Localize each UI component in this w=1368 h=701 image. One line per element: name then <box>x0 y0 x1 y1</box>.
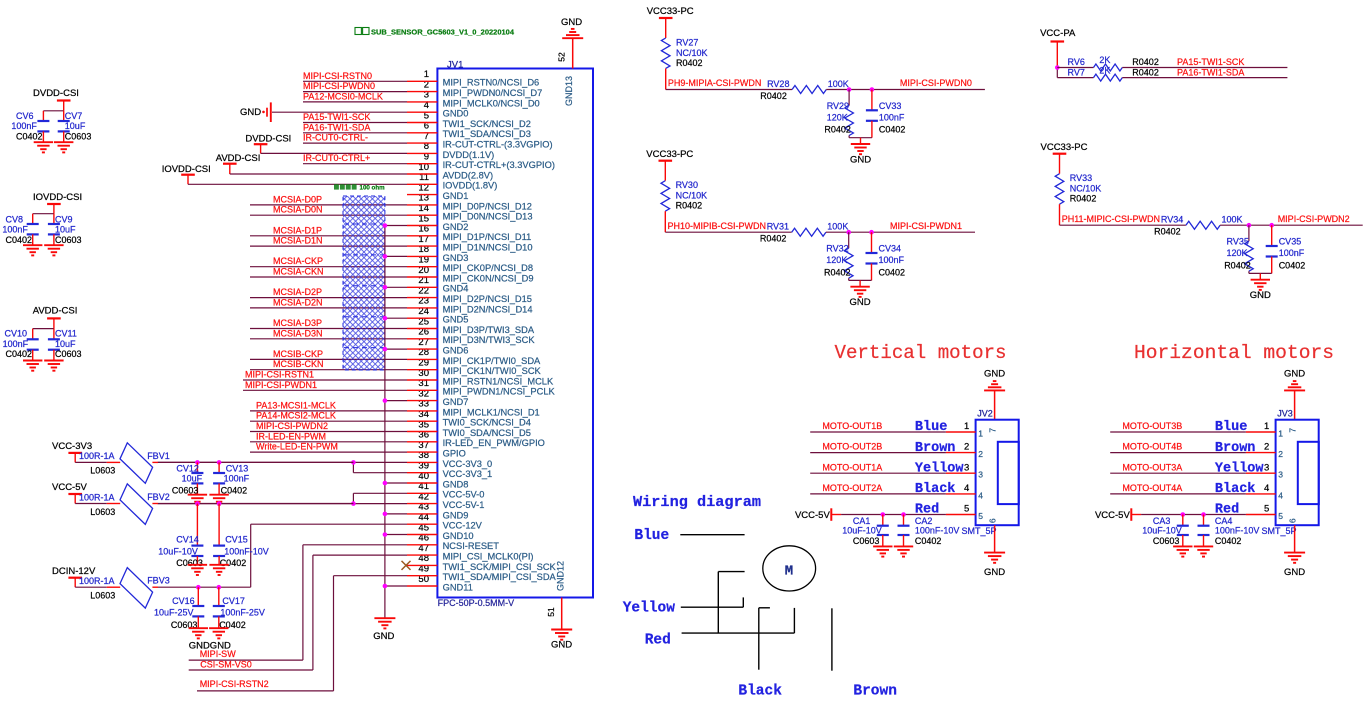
wire pin 23 <box>250 307 407 309</box>
wire Black lead <box>759 608 770 670</box>
svg-text:10uF-25V: 10uF-25V <box>154 608 194 618</box>
svg-text:MIPI_MCLK0/NCSI_D0: MIPI_MCLK0/NCSI_D0 <box>443 98 540 108</box>
svg-text:4: 4 <box>1278 490 1283 500</box>
svg-text:R0402: R0402 <box>676 58 703 68</box>
svg-text:MIPI-CSI-RSTN2: MIPI-CSI-RSTN2 <box>200 679 269 689</box>
GND bus junctions <box>383 223 388 588</box>
svg-text:CV7: CV7 <box>65 111 83 121</box>
junction CV12 <box>195 460 200 465</box>
svg-text:TWI0_SCK/NCSI_D4: TWI0_SCK/NCSI_D4 <box>443 418 531 428</box>
svg-text:MOTO-OUT4A: MOTO-OUT4A <box>1122 483 1182 493</box>
svg-text:MCSIB-CKP: MCSIB-CKP <box>273 349 323 359</box>
svg-text:L0603: L0603 <box>90 466 115 476</box>
net label MIPI-CSI-PWDN1 (pin 31) <box>245 380 317 390</box>
net label MCSIB-CKP (pin 28) <box>273 349 323 359</box>
svg-text:R0402: R0402 <box>1132 57 1159 67</box>
svg-text:MIPI-CSI-PWDN1: MIPI-CSI-PWDN1 <box>245 380 317 390</box>
ground tap pin 4 (GND bar symbol) <box>240 102 407 122</box>
connector JV1 footprint label <box>438 598 515 608</box>
svg-text:TWI0_SDA/NCSI_D5: TWI0_SDA/NCSI_D5 <box>443 428 531 438</box>
svg-text:PA16-TWI1-SDA: PA16-TWI1-SDA <box>303 122 370 132</box>
svg-text:C0402: C0402 <box>915 536 942 546</box>
wire pin 33 <box>250 410 407 412</box>
net label MCSIA-D2N (pin 23) <box>273 297 323 307</box>
svg-text:VCC33-PC: VCC33-PC <box>647 6 694 17</box>
wire CSI-SM-VS0 riser to pin 47 <box>189 555 407 670</box>
svg-text:10uF-10V: 10uF-10V <box>1142 525 1182 535</box>
wiring diagram label Blue <box>634 528 669 544</box>
wiring diagram label Yellow <box>623 601 676 617</box>
wire pin 19 <box>250 266 407 268</box>
svg-text:MCSIA-D1N: MCSIA-D1N <box>273 236 323 246</box>
svg-text:1: 1 <box>964 421 969 432</box>
svg-text:100nF: 100nF <box>11 121 37 131</box>
svg-text:C0402: C0402 <box>6 349 33 359</box>
wire VCC-3V3 rail to pins 38/39 <box>158 462 408 472</box>
junction CV16 <box>196 585 201 590</box>
capacitor CV13 <box>213 462 250 495</box>
junction CV14 <box>195 501 200 506</box>
svg-text:MIPI-CSI-PWDN2: MIPI-CSI-PWDN2 <box>256 421 328 431</box>
svg-text:RV34: RV34 <box>1161 215 1183 225</box>
resistor network RV30/RV31/RV32, capacitor CV34 (PH10-MIPIB-CSI-PWDN) <box>646 149 975 308</box>
svg-text:NCSI-RESET: NCSI-RESET <box>443 541 500 551</box>
svg-text:100nF-10V: 100nF-10V <box>1215 525 1260 535</box>
svg-text:IR-CUT-CTRL+(3.3VGPIO): IR-CUT-CTRL+(3.3VGPIO) <box>443 160 555 170</box>
svg-text:Blue: Blue <box>634 528 669 544</box>
svg-text:C0402: C0402 <box>6 235 33 245</box>
svg-text:C0402: C0402 <box>1215 536 1242 546</box>
wire pin 34 <box>250 420 407 422</box>
svg-text:PA12-MCSI0-MCLK: PA12-MCSI0-MCLK <box>303 91 383 101</box>
svg-text:MIPI_D1N/NCSI_D10: MIPI_D1N/NCSI_D10 <box>443 243 533 253</box>
svg-text:RV31: RV31 <box>767 222 789 232</box>
net label CSI-SM-VS0 <box>200 660 252 670</box>
junction VCC-5V <box>351 501 356 506</box>
svg-text:6: 6 <box>1287 518 1297 523</box>
svg-text:PH11-MIPIC-CSI-PWDN: PH11-MIPIC-CSI-PWDN <box>1062 214 1160 224</box>
svg-text:CV6: CV6 <box>16 111 34 121</box>
svg-text:Vertical motors: Vertical motors <box>835 342 1007 364</box>
capacitor CV16 <box>154 587 204 630</box>
svg-text:IOVDD(1.8V): IOVDD(1.8V) <box>443 181 498 191</box>
junction VCC-3V3 <box>351 460 356 465</box>
wire pin 28 <box>250 358 407 360</box>
svg-text:Black: Black <box>1215 482 1256 497</box>
svg-text:R0402: R0402 <box>1070 194 1097 204</box>
hatched highlight region (differential pairs) <box>343 196 385 370</box>
svg-text:AVDD-CSI: AVDD-CSI <box>216 153 261 164</box>
svg-text:10uF-10V: 10uF-10V <box>842 525 882 535</box>
svg-text:10uF: 10uF <box>55 339 76 349</box>
svg-text:AVDD-CSI: AVDD-CSI <box>33 306 78 317</box>
svg-text:Blue: Blue <box>1215 420 1247 435</box>
wire pin 25 <box>250 328 407 330</box>
svg-text:CV15: CV15 <box>225 535 248 545</box>
svg-text:IOVDD-CSI: IOVDD-CSI <box>33 192 82 203</box>
svg-text:IR-CUT0-CTRL-: IR-CUT0-CTRL- <box>303 133 368 143</box>
svg-text:1: 1 <box>1278 429 1283 439</box>
svg-text:TWI1_SDA/MIPI_CSI_SDA: TWI1_SDA/MIPI_CSI_SDA <box>443 572 557 582</box>
svg-text:GND: GND <box>373 631 394 642</box>
svg-text:100nF: 100nF <box>224 474 250 484</box>
svg-text:MOTO-OUT3B: MOTO-OUT3B <box>1122 421 1182 431</box>
svg-text:MOTO-OUT2A: MOTO-OUT2A <box>822 483 882 493</box>
wire Red lead <box>682 608 795 633</box>
svg-text:100nF-10V: 100nF-10V <box>224 547 269 557</box>
svg-text:5: 5 <box>978 511 983 521</box>
svg-text:IOVDD-CSI: IOVDD-CSI <box>162 164 211 175</box>
svg-text:GND6: GND6 <box>443 346 469 356</box>
net label PA15-TWI1-SCK (pin 5) <box>303 112 370 122</box>
svg-text:GND11: GND11 <box>443 582 473 592</box>
svg-text:NC/10K: NC/10K <box>1070 184 1102 194</box>
svg-text:GND2: GND2 <box>443 222 469 232</box>
svg-text:IR-CUT0-CTRL+: IR-CUT0-CTRL+ <box>303 153 370 163</box>
svg-text:GND5: GND5 <box>443 315 469 325</box>
svg-text:MIPI-CSI-RSTN1: MIPI-CSI-RSTN1 <box>245 370 314 380</box>
svg-text:VCC-5V: VCC-5V <box>795 510 831 521</box>
svg-text:2K: 2K <box>1099 65 1110 75</box>
svg-text:MIPI_D1P/NCSI_D11: MIPI_D1P/NCSI_D11 <box>443 232 532 242</box>
wire pin 5 <box>303 122 407 124</box>
svg-text:CV16: CV16 <box>172 596 195 606</box>
power tap IOVDD-CSI (pin 11) <box>162 164 407 184</box>
net label IR-CUT0-CTRL+ (pin 9) <box>303 153 370 163</box>
svg-text:IR-LED_EN_PWM/GPIO: IR-LED_EN_PWM/GPIO <box>443 438 545 448</box>
svg-text:2: 2 <box>964 442 969 453</box>
ground (CV15) <box>209 565 228 575</box>
wiring diagram label Brown <box>853 684 897 700</box>
svg-text:Black: Black <box>915 482 956 497</box>
connector JV1 refdes <box>447 59 463 70</box>
svg-text:2: 2 <box>1278 449 1283 459</box>
svg-text:100nF: 100nF <box>879 255 905 265</box>
svg-text:10uF: 10uF <box>182 474 203 484</box>
svg-text:C0603: C0603 <box>853 536 880 546</box>
svg-text:GND: GND <box>240 107 261 118</box>
svg-text:10uF-10V: 10uF-10V <box>158 547 198 557</box>
power DCIN-12V / ferrite bead FBV3 <box>52 566 251 608</box>
svg-text:120K: 120K <box>826 255 847 265</box>
svg-text:VCC-5V-1: VCC-5V-1 <box>443 500 485 510</box>
svg-text:Brown: Brown <box>853 684 897 700</box>
svg-text:VCC-PA: VCC-PA <box>1040 28 1076 39</box>
svg-text:SMT_5P: SMT_5P <box>1262 526 1297 536</box>
svg-text:MCSIA-D1P: MCSIA-D1P <box>273 225 322 235</box>
svg-text:RV7: RV7 <box>1068 67 1085 77</box>
svg-text:MOTO-OUT1A: MOTO-OUT1A <box>822 462 882 472</box>
svg-text:CV14: CV14 <box>176 535 199 545</box>
svg-text:GND: GND <box>984 567 1005 578</box>
svg-text:DVDD-CSI: DVDD-CSI <box>245 133 291 144</box>
svg-text:100K: 100K <box>828 79 849 89</box>
net label MCSIA-D0N (pin 14) <box>273 205 323 215</box>
svg-text:Write-LED-EN-PWM: Write-LED-EN-PWM <box>256 442 338 452</box>
wire pin 22 <box>250 297 407 299</box>
svg-text:100nF: 100nF <box>879 112 905 122</box>
power AVDD-CSI with capacitors CV10 CV11 <box>3 306 82 371</box>
net label GNDGND <box>189 640 231 651</box>
svg-text:L0603: L0603 <box>90 507 115 517</box>
connector JV3 (Horizontal motors) <box>1095 342 1334 578</box>
svg-text:MCSIA-CKP: MCSIA-CKP <box>273 256 323 266</box>
svg-text:PA15-TWI1-SCK: PA15-TWI1-SCK <box>1177 57 1244 67</box>
GND bus vertical wire <box>385 226 407 619</box>
net label PA16-TWI1-SDA (pin 6) <box>303 122 370 132</box>
svg-text:MOTO-OUT3A: MOTO-OUT3A <box>1122 462 1182 472</box>
svg-text:R0402: R0402 <box>824 267 851 277</box>
power VCC-5V / ferrite bead FBV2 <box>52 482 353 524</box>
svg-text:120K: 120K <box>1227 248 1248 258</box>
svg-text:MOTO-OUT4B: MOTO-OUT4B <box>1122 442 1182 452</box>
wire pin 37 <box>250 451 407 453</box>
capacitor CV14 <box>158 504 203 568</box>
svg-text:7: 7 <box>987 428 997 433</box>
svg-text:GND0: GND0 <box>443 109 469 119</box>
svg-text:RV33: RV33 <box>1070 173 1092 183</box>
svg-text:GND: GND <box>984 369 1005 380</box>
wire Brown lead <box>831 608 833 670</box>
svg-text:RV27: RV27 <box>676 38 698 48</box>
svg-text:CV10: CV10 <box>5 329 28 339</box>
svg-text:CV17: CV17 <box>222 596 245 606</box>
svg-text:MOTO-OUT2B: MOTO-OUT2B <box>822 442 882 452</box>
net label MIPI-CSI-RSTN0 (pin 1) <box>303 71 372 81</box>
svg-text:L0603: L0603 <box>90 591 115 601</box>
svg-text:R0402: R0402 <box>1224 260 1251 270</box>
svg-text:PA15-TWI1-SCK: PA15-TWI1-SCK <box>303 112 370 122</box>
net label MIPI-CSI-PWDN2 (pin 35) <box>256 421 328 431</box>
svg-text:PH10-MIPIB-CSI-PWDN: PH10-MIPIB-CSI-PWDN <box>668 221 767 231</box>
svg-text:MIPI_RSTN0/NCSI_D6: MIPI_RSTN0/NCSI_D6 <box>443 78 540 88</box>
svg-text:PA16-TWI1-SDA: PA16-TWI1-SDA <box>1177 67 1244 77</box>
svg-text:3: 3 <box>978 470 983 480</box>
JV1 pin stubs (red) <box>407 81 437 586</box>
wire pin 6 <box>303 132 407 134</box>
ground (pin 51) <box>551 630 572 651</box>
wire pin 26 <box>250 338 407 340</box>
svg-text:100 ohm: 100 ohm <box>360 185 386 192</box>
svg-text:MIPI_CK1N/TWI0_SCK: MIPI_CK1N/TWI0_SCK <box>443 366 542 376</box>
connector JV2 (Vertical motors) <box>795 342 1019 578</box>
JV1 pin numbers 1-50 <box>418 69 429 585</box>
svg-text:100K: 100K <box>1222 215 1243 225</box>
svg-text:DVDD-CSI: DVDD-CSI <box>33 88 79 99</box>
junction CV15 <box>217 501 222 506</box>
svg-text:MCSIA-D2P: MCSIA-D2P <box>273 287 322 297</box>
svg-text:RV32: RV32 <box>826 244 848 254</box>
svg-text:VCC33-PC: VCC33-PC <box>1041 142 1088 153</box>
net label MIPI-CSI-PWDN0 (pin 2) <box>303 81 375 91</box>
svg-text:GND: GND <box>1284 369 1305 380</box>
pin 52 wire to GND <box>557 38 573 68</box>
svg-text:GND: GND <box>1250 290 1271 301</box>
svg-text:CV11: CV11 <box>55 329 77 339</box>
svg-text:C0402: C0402 <box>16 132 43 142</box>
svg-text:120K: 120K <box>827 112 848 122</box>
svg-text:Black: Black <box>738 684 782 700</box>
power IOVDD-CSI with capacitors CV8 CV9 <box>2 192 82 255</box>
ground (CV14) <box>188 565 207 575</box>
svg-text:C0603: C0603 <box>65 132 92 142</box>
svg-text:Blue: Blue <box>915 420 947 435</box>
svg-text:MIPI_CK0N/NCSI_D9: MIPI_CK0N/NCSI_D9 <box>443 273 534 283</box>
svg-text:100nF: 100nF <box>1279 248 1305 258</box>
svg-text:5: 5 <box>1264 504 1269 515</box>
net label PA14-MCSI2-MCLK (pin 34) <box>256 411 336 421</box>
svg-text:Wiring diagram: Wiring diagram <box>633 494 761 511</box>
svg-text:MIPI_D2P/NCSI_D15: MIPI_D2P/NCSI_D15 <box>443 294 532 304</box>
impedance note (green) <box>334 184 385 191</box>
svg-text:C0603: C0603 <box>176 558 203 568</box>
wire pin 9 <box>303 163 407 165</box>
svg-text:CV12: CV12 <box>176 464 199 474</box>
svg-text:MCSIA-D3P: MCSIA-D3P <box>273 318 322 328</box>
wire pin 13 <box>250 204 407 206</box>
junction CV17 <box>217 585 222 590</box>
svg-text:PH9-MIPIA-CSI-PWDN: PH9-MIPIA-CSI-PWDN <box>668 78 762 88</box>
svg-text:VCC-3V3_1: VCC-3V3_1 <box>443 469 493 479</box>
svg-text:TWI1_SDA/NCSI_D3: TWI1_SDA/NCSI_D3 <box>443 129 531 139</box>
wire MIPI-CSI-RSTN2 riser to pin 49 <box>197 576 407 691</box>
svg-text:JV3: JV3 <box>1277 409 1293 419</box>
svg-text:GND3: GND3 <box>443 253 469 263</box>
svg-text:IR-LED-EN-PWM: IR-LED-EN-PWM <box>256 431 326 441</box>
net label MCSIB-CKN (pin 29) <box>273 359 324 369</box>
svg-text:10uF: 10uF <box>65 121 86 131</box>
net label MCSIA-D1N (pin 17) <box>273 236 323 246</box>
svg-text:C0402: C0402 <box>220 558 247 568</box>
capacitor CV15 <box>213 504 269 568</box>
svg-text:RV35: RV35 <box>1227 237 1249 247</box>
net label IR-LED-EN-PWM (pin 36) <box>256 431 326 441</box>
svg-text:TWI1_SCK/MIPI_CSI_SCK: TWI1_SCK/MIPI_CSI_SCK <box>443 562 557 572</box>
svg-text:Horizontal motors: Horizontal motors <box>1134 342 1334 364</box>
svg-text:CV33: CV33 <box>879 101 902 111</box>
svg-text:100nF-25V: 100nF-25V <box>220 608 265 618</box>
svg-text:1: 1 <box>1264 421 1269 432</box>
svg-text:VCC-5V: VCC-5V <box>1095 510 1131 521</box>
wiring diagram title <box>633 494 761 511</box>
svg-text:1: 1 <box>978 429 983 439</box>
svg-text:R0402: R0402 <box>760 91 787 101</box>
svg-text:5: 5 <box>964 504 969 515</box>
svg-text:IR-CUT-CTRL-(3.3VGPIO): IR-CUT-CTRL-(3.3VGPIO) <box>443 140 553 150</box>
svg-text:M: M <box>785 563 793 579</box>
svg-text:MIPI_RSTN1/NCSI_MCLK: MIPI_RSTN1/NCSI_MCLK <box>443 376 554 386</box>
svg-text:R0402: R0402 <box>676 201 703 211</box>
wire pin 35 <box>250 431 407 433</box>
svg-text:Brown: Brown <box>1215 441 1256 456</box>
wire MIPI-SW riser to pin 46 <box>189 545 407 660</box>
svg-text:2K: 2K <box>1099 55 1110 65</box>
svg-text:100nF: 100nF <box>3 339 29 349</box>
svg-text:RV28: RV28 <box>767 79 789 89</box>
wire Yellow lead <box>681 597 744 607</box>
wire pin 31 <box>243 389 407 391</box>
connector JV1 outline FPC-50P-0.5MM-V <box>437 69 593 598</box>
svg-text:52: 52 <box>557 52 567 62</box>
net label MIPI-SW <box>200 649 237 659</box>
svg-text:100R-1A: 100R-1A <box>79 576 115 586</box>
svg-text:CV13: CV13 <box>226 464 249 474</box>
svg-text:TWI1_SCK/NCSI_D2: TWI1_SCK/NCSI_D2 <box>443 119 531 129</box>
svg-text:2: 2 <box>978 449 983 459</box>
svg-text:MIPI_CSI_MCLK0(PI): MIPI_CSI_MCLK0(PI) <box>443 552 534 562</box>
svg-text:MIPI-CSI-PWDN0: MIPI-CSI-PWDN0 <box>303 81 375 91</box>
svg-text:3: 3 <box>964 462 969 473</box>
wire VCC-5V rail to pins 41/42 <box>158 493 408 503</box>
svg-text:100nF: 100nF <box>2 225 28 235</box>
svg-text:FBV1: FBV1 <box>147 451 170 461</box>
svg-text:GND8: GND8 <box>443 479 469 489</box>
wire pin 17 <box>250 245 407 247</box>
svg-text:100K: 100K <box>827 222 848 232</box>
svg-text:MIPI_CK1P/TWI0_SDA: MIPI_CK1P/TWI0_SDA <box>443 356 541 366</box>
svg-text:VCC-5V-0: VCC-5V-0 <box>443 490 485 500</box>
resistor network RV33/RV34/RV35, capacitor CV35 (PH11-MIPIC-CSI-PWDN) <box>1041 142 1363 301</box>
svg-text:MIPI_D3N/TWI3_SCK: MIPI_D3N/TWI3_SCK <box>443 335 536 345</box>
svg-text:GND: GND <box>561 17 582 28</box>
wire pin 7 <box>303 142 407 144</box>
svg-text:CV8: CV8 <box>6 215 24 225</box>
net label MCSIA-D3N (pin 26) <box>273 328 323 338</box>
svg-text:GND: GND <box>850 154 871 165</box>
net label MIPI-CSI-RSTN2 <box>200 679 269 689</box>
svg-text:MIPI_CK0P/NCSI_D8: MIPI_CK0P/NCSI_D8 <box>443 263 533 273</box>
svg-text:SUB_SENSOR_GC5603_V1_0_2022010: SUB_SENSOR_GC5603_V1_0_20220104 <box>371 28 515 37</box>
svg-text:R0402: R0402 <box>1154 227 1181 237</box>
svg-text:10uF: 10uF <box>55 225 76 235</box>
svg-text:MIPI_PWDN1/NCSI_PCLK: MIPI_PWDN1/NCSI_PCLK <box>443 387 556 397</box>
JV1 pin names <box>443 78 557 593</box>
svg-text:MIPI_PWDN0/NCSI_D7: MIPI_PWDN0/NCSI_D7 <box>443 88 543 98</box>
svg-text:GND4: GND4 <box>443 284 469 294</box>
svg-text:Yellow: Yellow <box>915 461 965 476</box>
net label MCSIA-CKP (pin 19) <box>273 256 323 266</box>
svg-text:MIPI-CSI-PWDN2: MIPI-CSI-PWDN2 <box>1278 214 1350 224</box>
svg-text:Yellow: Yellow <box>1215 461 1265 476</box>
svg-text:MCSIA-D0N: MCSIA-D0N <box>273 205 323 215</box>
power DVDD-CSI with capacitors CV6 CV7 <box>11 88 91 152</box>
svg-text:C0402: C0402 <box>1279 260 1306 270</box>
wire pin 16 <box>250 235 407 237</box>
svg-text:100nF-10V: 100nF-10V <box>915 525 960 535</box>
svg-text:R0402: R0402 <box>1132 67 1159 77</box>
svg-text:RV30: RV30 <box>676 180 698 190</box>
ground (CV17) <box>209 628 228 638</box>
svg-text:MIPI-CSI-RSTN0: MIPI-CSI-RSTN0 <box>303 71 372 81</box>
wire pin 36 <box>250 441 407 443</box>
wire pin 14 <box>250 214 407 216</box>
svg-text:NC/10K: NC/10K <box>676 48 708 58</box>
capacitor CV17 <box>213 587 265 630</box>
svg-text:2: 2 <box>1264 442 1269 453</box>
svg-text:6: 6 <box>987 518 997 523</box>
svg-text:MCSIA-D2N: MCSIA-D2N <box>273 297 323 307</box>
net label MCSIA-D0P (pin 13) <box>273 194 322 204</box>
svg-text:MCSIB-CKN: MCSIB-CKN <box>273 359 324 369</box>
net label MCSIA-CKN (pin 20) <box>273 267 324 277</box>
net label PA13-MCSI1-MCLK (pin 33) <box>256 400 336 410</box>
no-connect pin 48 <box>402 561 411 570</box>
svg-text:GND7: GND7 <box>443 397 469 407</box>
svg-text:4: 4 <box>964 483 969 494</box>
svg-text:MCSIA-CKN: MCSIA-CKN <box>273 267 324 277</box>
net label PA12-MCSI0-MCLK (pin 3) <box>303 91 383 101</box>
svg-text:C0402: C0402 <box>879 267 906 277</box>
